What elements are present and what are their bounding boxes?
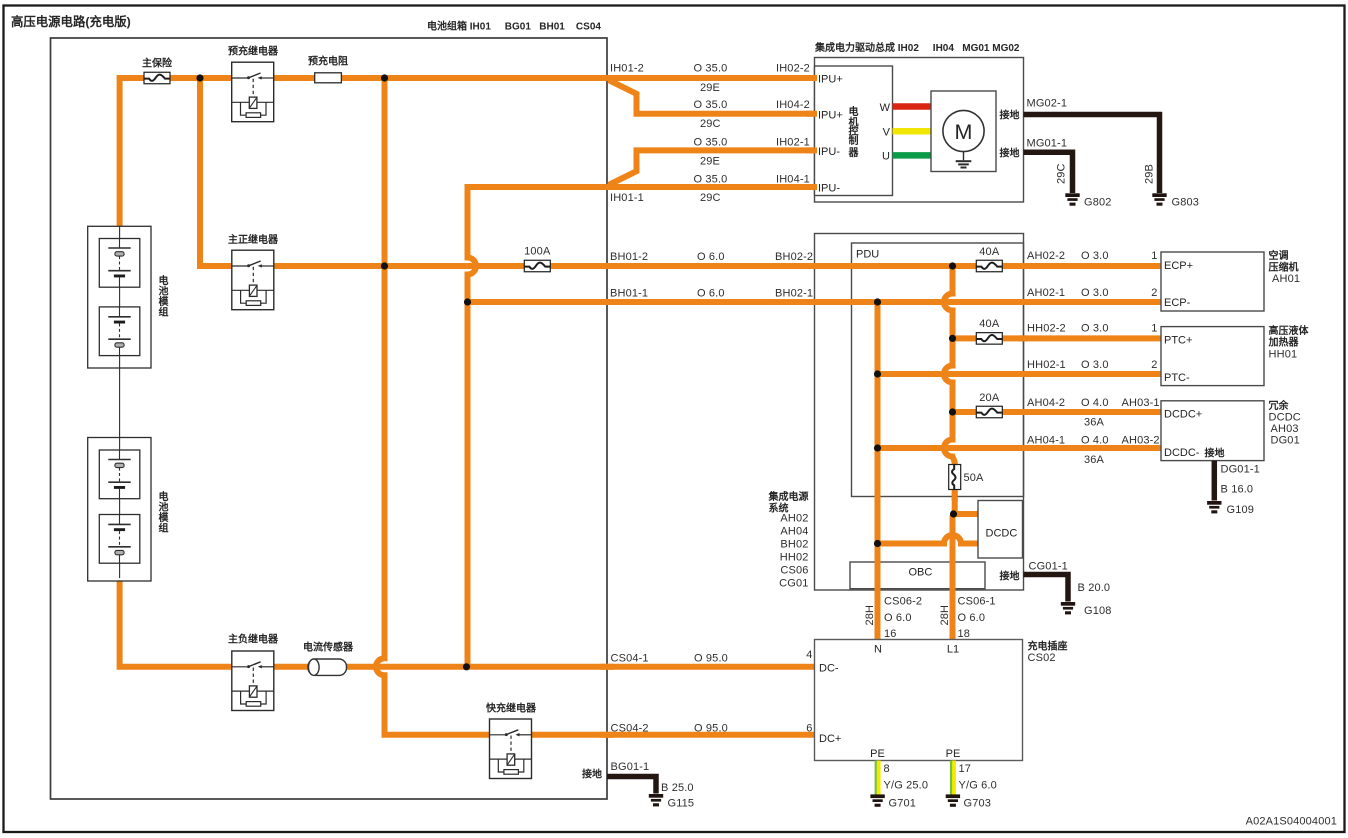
svg-text:DCDC: DCDC — [986, 528, 1018, 540]
svg-text:O 6.0: O 6.0 — [958, 612, 986, 624]
svg-text:AH02: AH02 — [780, 513, 808, 525]
svg-text:冗余: 冗余 — [1269, 399, 1290, 412]
svg-text:主负继电器: 主负继电器 — [228, 633, 279, 646]
svg-text:B 20.0: B 20.0 — [1078, 582, 1111, 594]
svg-text:BG01-1: BG01-1 — [611, 761, 650, 773]
svg-text:高压电源电路(充电版): 高压电源电路(充电版) — [11, 14, 131, 29]
svg-text:HH02-2: HH02-2 — [1027, 323, 1066, 335]
wire MG02-1 ground (black) — [1024, 115, 1160, 194]
motor controller box 电机控制器 U1 — [815, 66, 893, 196]
wire patches over battery box edge — [600, 78, 614, 735]
OBC box — [850, 562, 985, 589]
svg-text:O 6.0: O 6.0 — [697, 251, 725, 263]
svg-text:DG01: DG01 — [1271, 435, 1300, 447]
svg-text:IH01-1: IH01-1 — [610, 192, 644, 204]
svg-text:Y/G 25.0: Y/G 25.0 — [884, 780, 929, 792]
svg-text:O 6.0: O 6.0 — [884, 612, 912, 624]
svg-text:40A: 40A — [979, 318, 1000, 330]
wire PE to G703 (yellow/green) — [951, 761, 954, 795]
junction node 40A row — [949, 335, 956, 342]
junction node negative bus / CS04-1 — [463, 663, 470, 670]
svg-text:O 35.0: O 35.0 — [694, 99, 728, 111]
wire: precharge bypass bus down to fast charge relay, hop over negative bus — [376, 78, 815, 735]
wire V phase (yellow) — [893, 128, 932, 135]
svg-text:充电插座: 充电插座 — [1028, 640, 1068, 653]
wire stubs IPU (orange, drawn over box edge) — [806, 78, 817, 187]
svg-text:1: 1 — [1151, 323, 1157, 335]
svg-text:CS04-1: CS04-1 — [611, 653, 649, 665]
motor box MG — [931, 91, 996, 172]
svg-text:加热器: 加热器 — [1268, 336, 1300, 349]
svg-text:ECP-: ECP- — [1164, 297, 1191, 309]
battery pack box 电池组箱 — [51, 38, 608, 799]
svg-text:器: 器 — [848, 147, 860, 159]
junction node 20A row — [949, 408, 956, 415]
svg-text:预充继电器: 预充继电器 — [228, 45, 279, 58]
junction node DCDC feed — [950, 510, 957, 517]
svg-text:HH02-1: HH02-1 — [1027, 359, 1066, 371]
wire patches over power system box edges — [810, 266, 1028, 596]
junction node PTC- row — [874, 370, 881, 377]
svg-text:100A: 100A — [524, 246, 551, 258]
svg-text:HH01: HH01 — [1269, 349, 1298, 361]
svg-text:IH01-2: IH01-2 — [610, 63, 644, 75]
junction node N / BH02-1 — [874, 298, 881, 305]
current sensor 电流传感器 — [308, 659, 347, 675]
main negative relay 主负继电器 — [232, 651, 274, 711]
svg-text:29E: 29E — [700, 155, 720, 167]
svg-text:O 3.0: O 3.0 — [1081, 287, 1109, 299]
wire: battery negative bus to DC- (CS04-1) — [120, 580, 815, 667]
fuse 50A (vertical) — [949, 465, 961, 490]
svg-text:PE: PE — [946, 748, 961, 760]
svg-text:AH03-1: AH03-1 — [1122, 397, 1160, 409]
svg-text:28H: 28H — [864, 605, 876, 626]
battery cell 2 — [99, 307, 140, 356]
svg-text:O 95.0: O 95.0 — [694, 723, 728, 735]
svg-text:IPU+: IPU+ — [818, 74, 843, 86]
svg-text:O 35.0: O 35.0 — [694, 63, 728, 75]
wire: 20A fuse row to DCDC+ — [953, 409, 1162, 415]
wire PE to G701 (yellow/green) — [876, 761, 879, 795]
svg-text:PE: PE — [870, 748, 885, 760]
svg-text:29E: 29E — [700, 82, 720, 94]
svg-text:17: 17 — [959, 763, 972, 775]
svg-text:OBC: OBC — [909, 567, 933, 579]
svg-text:O 4.0: O 4.0 — [1081, 435, 1109, 447]
svg-text:接地: 接地 — [1000, 570, 1020, 583]
ground G108 — [1061, 602, 1075, 614]
svg-text:主正继电器: 主正继电器 — [228, 233, 279, 246]
svg-text:G802: G802 — [1084, 197, 1112, 209]
svg-text:PDU: PDU — [856, 249, 879, 261]
svg-text:主保险: 主保险 — [142, 57, 173, 70]
ground G703 — [946, 794, 960, 806]
svg-text:AH02-1: AH02-1 — [1027, 287, 1065, 299]
svg-text:W: W — [880, 102, 891, 114]
svg-text:6: 6 — [806, 723, 812, 735]
wire W phase (red) — [893, 103, 932, 110]
svg-text:IH02-2: IH02-2 — [776, 63, 810, 75]
svg-text:DCDC: DCDC — [1269, 412, 1301, 424]
label 高压液体加热器 HH01 — [1268, 324, 1310, 361]
ground G701 — [870, 794, 884, 806]
wire: 50A fuse output to DCDC module — [954, 511, 979, 517]
integrated power system box 集成电源系统 — [815, 234, 1024, 591]
svg-text:AH04-2: AH04-2 — [1027, 397, 1065, 409]
svg-text:接地: 接地 — [1000, 146, 1020, 159]
svg-text:V: V — [883, 127, 891, 139]
svg-text:G701: G701 — [889, 798, 917, 810]
junction node C positive bus — [381, 262, 388, 269]
svg-text:MG02-1: MG02-1 — [1027, 98, 1068, 110]
svg-text:CS06-2: CS06-2 — [884, 596, 922, 608]
svg-text:L1: L1 — [947, 644, 959, 656]
battery cell 4 — [99, 515, 140, 564]
fuse 100A — [524, 260, 550, 272]
svg-text:DC+: DC+ — [819, 733, 841, 745]
battery cell 3 — [99, 450, 140, 499]
svg-text:O 6.0: O 6.0 — [697, 288, 725, 300]
svg-text:CS06-1: CS06-1 — [958, 596, 996, 608]
svg-text:O 3.0: O 3.0 — [1081, 250, 1109, 262]
ground G115 — [649, 794, 663, 806]
svg-text:电: 电 — [849, 105, 859, 118]
junction node A — [196, 74, 203, 81]
svg-text:电: 电 — [159, 490, 169, 503]
svg-text:G109: G109 — [1227, 504, 1255, 516]
svg-text:O 95.0: O 95.0 — [694, 653, 728, 665]
fuse 40A (PTC) — [976, 333, 1002, 345]
svg-text:8: 8 — [884, 763, 890, 775]
svg-text:BH02: BH02 — [780, 539, 808, 551]
wire: L1 line x=952.5 with hops, 50A fuse jog, to charge socket — [944, 266, 955, 640]
svg-text:池: 池 — [159, 501, 169, 514]
battery cell 1 — [99, 239, 140, 288]
svg-text:压缩机: 压缩机 — [1269, 261, 1299, 274]
svg-text:AH01: AH01 — [1272, 273, 1300, 285]
svg-text:CG01: CG01 — [779, 578, 808, 590]
svg-text:B 25.0: B 25.0 — [661, 782, 694, 794]
svg-text:模: 模 — [159, 295, 170, 308]
junction node B precharge output — [381, 74, 388, 81]
svg-text:DC-: DC- — [819, 663, 839, 675]
svg-text:IPU-: IPU- — [818, 183, 840, 195]
svg-text:U: U — [882, 151, 890, 163]
wire: 40A fuse row to PTC+ — [953, 335, 1162, 341]
fuse 主保险 — [144, 72, 170, 84]
svg-text:BH01-1: BH01-1 — [610, 288, 648, 300]
svg-text:G108: G108 — [1084, 605, 1112, 617]
svg-text:O 35.0: O 35.0 — [694, 173, 728, 185]
junction node BH02-2 / L1 — [949, 262, 956, 269]
svg-text:CS06: CS06 — [780, 565, 808, 577]
svg-text:G803: G803 — [1172, 197, 1200, 209]
svg-text:20A: 20A — [979, 392, 1000, 404]
wire: N line x=877.5 from BH01-1 junction to charge socket — [875, 302, 881, 640]
svg-text:接地: 接地 — [1205, 447, 1225, 460]
svg-text:1: 1 — [1151, 250, 1157, 262]
svg-text:O 3.0: O 3.0 — [1081, 323, 1109, 335]
wire: negative line to IPU- (IH01-1) with hop over BH02-2 row — [468, 187, 815, 667]
wire: branch to IH04-2 row — [609, 80, 815, 114]
svg-text:模: 模 — [159, 511, 170, 524]
ground G803 — [1152, 193, 1166, 205]
junction node DCDC- row — [874, 444, 881, 451]
junction node lower DCDC feed — [874, 540, 881, 547]
svg-text:组: 组 — [159, 522, 169, 535]
svg-text:29C: 29C — [700, 192, 721, 204]
series link wire between modules — [119, 368, 121, 438]
wire DG01-1 ground (black) — [1212, 461, 1218, 501]
integrated drive assembly box 集成电力驱动总成 — [815, 58, 1024, 203]
svg-text:IPU+: IPU+ — [818, 109, 843, 121]
label 空调压缩机 AH01 — [1269, 249, 1301, 285]
svg-text:高压液体: 高压液体 — [1269, 324, 1310, 337]
svg-text:29C: 29C — [1056, 163, 1068, 184]
motor internal ground — [956, 152, 972, 169]
svg-text:B 16.0: B 16.0 — [1221, 484, 1254, 496]
svg-text:O 4.0: O 4.0 — [1081, 397, 1109, 409]
wire MG01-1 ground (black) — [1024, 152, 1073, 193]
ground G802 — [1065, 193, 1079, 205]
svg-text:IPU-: IPU- — [818, 146, 840, 158]
wire: DCDC- row — [878, 445, 1162, 451]
svg-text:集成电源: 集成电源 — [768, 490, 809, 503]
svg-text:PTC-: PTC- — [1164, 372, 1190, 384]
wire: lower DCDC feed with hop over L1 line — [878, 535, 979, 544]
svg-text:池: 池 — [159, 285, 169, 298]
battery module 2 电池模组 — [88, 438, 151, 582]
svg-text:Y/G 6.0: Y/G 6.0 — [959, 780, 997, 792]
svg-text:IH04-2: IH04-2 — [776, 99, 810, 111]
svg-text:50A: 50A — [964, 472, 985, 484]
svg-text:28H: 28H — [939, 605, 951, 626]
svg-text:HH02: HH02 — [780, 552, 809, 564]
svg-text:N: N — [874, 644, 882, 656]
svg-text:制: 制 — [849, 134, 859, 147]
svg-text:18: 18 — [958, 628, 971, 640]
battery module 1 电池模组 — [88, 226, 151, 368]
wire: main positive relay output row BH01-2/BH02-2 to ECP+ — [272, 263, 1161, 269]
ECP box 空调压缩机 AH01 — [1161, 252, 1264, 311]
ground G109 — [1207, 501, 1221, 513]
svg-text:AH04-1: AH04-1 — [1027, 435, 1065, 447]
svg-text:16: 16 — [884, 628, 897, 640]
fuse 40A (ECP) — [976, 260, 1002, 272]
label 集成电源系统 — [768, 490, 809, 515]
junction node BH01-1 — [464, 298, 471, 305]
svg-text:AH03-2: AH03-2 — [1122, 435, 1160, 447]
svg-text:接地: 接地 — [582, 768, 602, 781]
svg-text:BH01-2: BH01-2 — [610, 251, 648, 263]
svg-text:接地: 接地 — [1000, 109, 1020, 122]
svg-text:2: 2 — [1151, 359, 1157, 371]
svg-text:29C: 29C — [700, 118, 721, 130]
svg-text:O 3.0: O 3.0 — [1081, 359, 1109, 371]
label 充电插座 CS02 — [1028, 640, 1068, 665]
svg-text:IH02-1: IH02-1 — [776, 137, 810, 149]
svg-text:CS04-2: CS04-2 — [611, 723, 649, 735]
svg-text:36A: 36A — [1084, 417, 1105, 429]
svg-text:G703: G703 — [964, 798, 992, 810]
wire CG01-1 ground (black) — [1024, 575, 1069, 602]
DCDC module box — [978, 501, 1023, 559]
svg-text:CG01-1: CG01-1 — [1029, 561, 1068, 573]
svg-text:电: 电 — [159, 274, 169, 287]
wire: IH02-1 row with branch from IH01-1 — [609, 150, 815, 185]
svg-text:组: 组 — [159, 306, 169, 319]
svg-text:IH04-1: IH04-1 — [776, 173, 810, 185]
svg-text:40A: 40A — [979, 246, 1000, 258]
charge socket box 充电插座 CS02 — [815, 640, 1023, 761]
svg-text:4: 4 — [806, 649, 812, 661]
svg-text:电池组箱 IH01 BG01 BH01 C: 电池组箱 IH01 BG01 BH01 CS04 — [427, 20, 601, 33]
svg-text:36A: 36A — [1084, 454, 1105, 466]
svg-text:MG01-1: MG01-1 — [1027, 138, 1068, 150]
motor M circle — [943, 110, 984, 151]
label 冗余 DCDC AH03 DG01 — [1269, 399, 1301, 447]
svg-text:DG01-1: DG01-1 — [1221, 464, 1260, 476]
svg-text:AH02-2: AH02-2 — [1027, 250, 1065, 262]
fast charge relay 快充继电器 — [490, 719, 532, 779]
svg-text:PTC+: PTC+ — [1164, 335, 1192, 347]
wire BG01-1 ground (black) — [607, 777, 656, 794]
wire U phase (green) — [893, 152, 932, 159]
svg-text:快充继电器: 快充继电器 — [485, 702, 537, 715]
wire: BH01-1/BH02-1 row to ECP- — [468, 299, 1162, 305]
svg-text:DCDC+: DCDC+ — [1164, 409, 1202, 421]
precharge resistor 预充电阻 — [315, 73, 342, 83]
svg-text:集成电力驱动总成 IH02 IH04 MG01: 集成电力驱动总成 IH02 IH04 MG01 MG02 — [814, 41, 1020, 54]
wire: PTC- row — [878, 371, 1162, 377]
svg-text:CS02: CS02 — [1028, 652, 1056, 664]
svg-text:电流传感器: 电流传感器 — [303, 641, 354, 654]
svg-text:A02A1S04004001: A02A1S04004001 — [1246, 816, 1337, 828]
PTC box 高压液体加热器 HH01 — [1161, 327, 1264, 386]
svg-text:2: 2 — [1151, 287, 1157, 299]
main positive relay 主正继电器 — [232, 250, 274, 310]
svg-text:O 35.0: O 35.0 — [694, 137, 728, 149]
wire: node A down to main positive relay — [200, 78, 233, 266]
svg-text:预充电阻: 预充电阻 — [308, 55, 348, 68]
svg-text:AH03: AH03 — [1271, 423, 1299, 435]
svg-text:BH02-2: BH02-2 — [775, 251, 813, 263]
redundant DCDC box 冗余DCDC AH03 DG01 — [1161, 401, 1264, 461]
svg-text:AH04: AH04 — [780, 526, 808, 538]
fuse 20A (DCDC) — [976, 406, 1002, 418]
wire: battery positive to IPU+ row (IH01-2) — [120, 78, 815, 227]
svg-text:空调: 空调 — [1269, 249, 1289, 262]
svg-text:ECP+: ECP+ — [1164, 260, 1193, 272]
svg-text:M: M — [955, 120, 973, 144]
PDU box — [852, 243, 1024, 497]
vertical label 电机控制器 — [848, 105, 860, 159]
svg-text:G115: G115 — [668, 798, 695, 810]
svg-text:BH02-1: BH02-1 — [775, 288, 813, 300]
svg-text:DCDC-: DCDC- — [1164, 447, 1200, 459]
precharge relay 预充继电器 — [232, 62, 274, 121]
svg-text:29B: 29B — [1144, 164, 1156, 184]
